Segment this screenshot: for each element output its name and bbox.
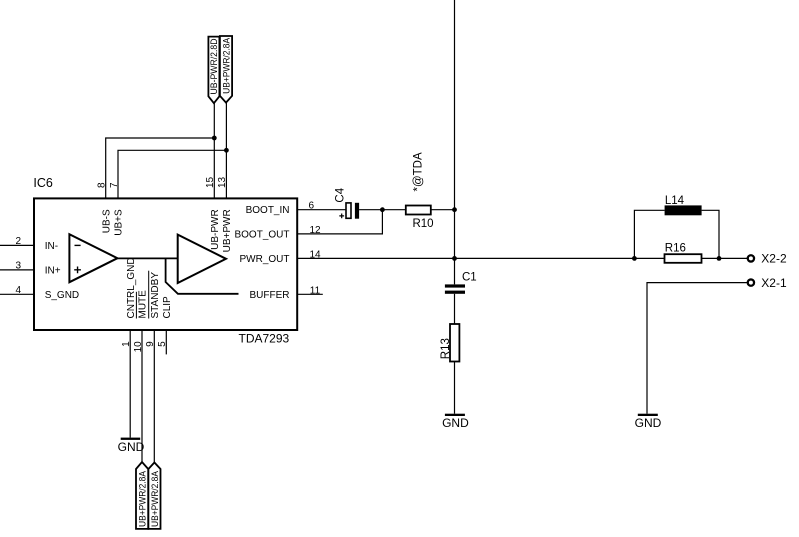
svg-text:TDA7293: TDA7293 <box>239 332 290 346</box>
svg-text:L14: L14 <box>665 195 685 207</box>
junction node L14 right <box>717 256 722 261</box>
wire pin 2 (IN-) <box>0 244 34 246</box>
op-amp A1 input stage <box>69 234 117 282</box>
junction node C4 boot <box>380 207 385 212</box>
wire pin 4 (S_GND) <box>0 293 34 295</box>
svg-text:MUTE: MUTE <box>138 290 149 319</box>
svg-text:8: 8 <box>97 182 108 188</box>
resistor R10 <box>406 206 431 215</box>
svg-text:BUFFER: BUFFER <box>250 290 290 301</box>
ground symbol right <box>638 414 658 416</box>
flag UB+PWR/2.8A bottom left <box>136 462 148 529</box>
svg-text:GND: GND <box>442 416 469 430</box>
svg-text:X2-1: X2-1 <box>761 276 787 290</box>
svg-text:2: 2 <box>15 236 21 247</box>
wire flag UB-PWR to pin 15 <box>213 103 215 198</box>
svg-text:4: 4 <box>15 285 21 296</box>
IC6 box TDA7293 <box>34 198 297 330</box>
svg-text:1: 1 <box>121 341 132 347</box>
resistor R16 <box>665 254 702 263</box>
svg-text:9: 9 <box>145 341 156 347</box>
junction node bus PWR_OUT <box>452 256 457 261</box>
connector pin X2-1 <box>748 279 754 285</box>
op-amp A1 plus sign <box>74 267 81 274</box>
svg-text:UB+PWR/2.8A: UB+PWR/2.8A <box>221 37 231 94</box>
svg-text:IN+: IN+ <box>45 265 61 276</box>
flag UB+PWR/2.8A bottom right <box>148 463 160 529</box>
wire pin 11 stub <box>297 293 323 295</box>
svg-text:UB+PWR: UB+PWR <box>222 209 233 252</box>
wire pin 3 (IN+) <box>0 269 34 271</box>
svg-text:STANDBY: STANDBY <box>150 272 161 319</box>
svg-text:UB-PWR: UB-PWR <box>210 209 221 250</box>
svg-text:15: 15 <box>205 176 216 188</box>
svg-text:UB+S: UB+S <box>114 209 125 236</box>
svg-text:IC6: IC6 <box>33 176 53 190</box>
wire pin 7 to net UB+PWR <box>118 150 226 198</box>
svg-text:CNTRL_GND: CNTRL_GND <box>126 257 137 318</box>
flag UB-PWR/2.8D top <box>208 37 219 104</box>
capacitor C1 plate bottom <box>445 291 465 294</box>
junction node pin8/UB-PWR <box>212 136 217 141</box>
svg-text:3: 3 <box>15 260 21 271</box>
resistor R13 <box>450 324 459 362</box>
wire buffer tap <box>166 258 239 293</box>
inductor L14 <box>665 205 702 215</box>
svg-text:12: 12 <box>310 225 322 236</box>
svg-text:7: 7 <box>109 182 120 188</box>
capacitor C4 plus sign <box>339 214 344 219</box>
connector pin X2-2 <box>748 255 754 261</box>
wire R10 to bus <box>431 209 455 211</box>
wire pin 9 to flag <box>153 330 155 463</box>
wire pin 14 PWR_OUT net <box>297 257 747 259</box>
svg-text:13: 13 <box>217 176 228 188</box>
wire pin 5 stub <box>165 330 167 354</box>
wire L14 right leg <box>702 210 719 258</box>
svg-text:GND: GND <box>635 416 662 430</box>
wire pin 10 to flag <box>141 330 143 462</box>
wire vertical bus net <box>454 0 456 284</box>
wire X2-1 to ground <box>647 283 748 414</box>
ground symbol under pin 1 <box>121 438 141 440</box>
svg-text:10: 10 <box>133 341 144 353</box>
svg-text:R16: R16 <box>665 243 686 255</box>
svg-text:UB-S: UB-S <box>101 209 112 233</box>
capacitor C1 plate top <box>445 284 465 287</box>
svg-text:X2-2: X2-2 <box>761 252 787 266</box>
svg-text:5: 5 <box>157 341 168 347</box>
capacitor C4 plate left <box>346 203 351 218</box>
svg-text:R13: R13 <box>440 338 452 359</box>
svg-text:UB+PWR/2.8A: UB+PWR/2.8A <box>150 470 160 527</box>
svg-text:PWR_OUT: PWR_OUT <box>240 254 290 265</box>
wire C1 to R13 <box>454 294 456 324</box>
svg-text:R10: R10 <box>412 218 433 230</box>
svg-text:C1: C1 <box>462 272 477 284</box>
svg-text:*@TDA: *@TDA <box>412 152 424 191</box>
svg-text:GND: GND <box>118 440 145 454</box>
svg-text:IN-: IN- <box>45 241 58 252</box>
junction node pin7/UB+PWR <box>224 148 229 153</box>
svg-text:S_GND: S_GND <box>45 290 79 301</box>
svg-text:14: 14 <box>310 249 322 260</box>
svg-text:UB-PWR/2.8D: UB-PWR/2.8D <box>209 38 219 94</box>
op-amp A1 minus sign <box>75 244 81 246</box>
wire R13 to ground <box>454 362 456 414</box>
junction node L14 left <box>632 256 637 261</box>
wire flag UB+PWR to pin 13 <box>225 103 227 199</box>
wire pin 12 BOOT_OUT <box>297 210 382 234</box>
svg-text:6: 6 <box>309 201 315 212</box>
capacitor C4 plate right <box>355 203 359 219</box>
ground symbol under R13 <box>445 414 465 416</box>
wire A1 output to A2 <box>117 257 178 259</box>
svg-text:UB+PWR/2.8A: UB+PWR/2.8A <box>137 470 147 527</box>
wire C4 to R10 <box>359 209 406 211</box>
op-amp A2 output stage <box>178 235 226 283</box>
wire pin 8 to net UB-PWR <box>106 138 215 198</box>
junction node R10 bus <box>452 207 457 212</box>
wire L14 left leg <box>634 210 664 258</box>
flag UB+PWR/2.8A top <box>220 36 232 103</box>
svg-text:CLIP: CLIP <box>162 296 173 319</box>
wire pin 1 to ground <box>129 330 131 438</box>
svg-text:BOOT_OUT: BOOT_OUT <box>234 229 289 240</box>
wire pin 6 to C4 <box>297 209 346 211</box>
svg-text:BOOT_IN: BOOT_IN <box>246 205 290 216</box>
svg-text:C4: C4 <box>335 187 347 202</box>
svg-text:11: 11 <box>310 285 321 296</box>
